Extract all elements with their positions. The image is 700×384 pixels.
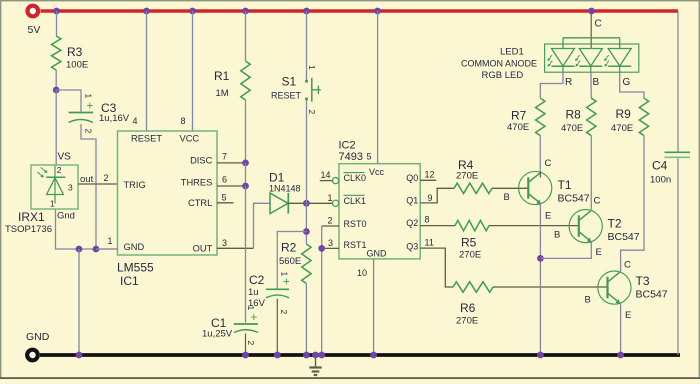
svg-text:2: 2 bbox=[279, 310, 289, 315]
svg-text:2: 2 bbox=[57, 165, 62, 175]
node C2 tap bbox=[303, 228, 310, 235]
diode D1 1N4148 bbox=[269, 171, 301, 214]
capacitor C1 bbox=[202, 306, 258, 346]
wire IRX1 gnd down bbox=[56, 209, 118, 249]
svg-text:1u,25V: 1u,25V bbox=[202, 329, 233, 340]
svg-text:RST0: RST0 bbox=[344, 219, 367, 229]
wire S1 to CLK1 node bbox=[306, 101, 308, 204]
node R3/C3/IRX1 bbox=[53, 87, 60, 94]
svg-text:S1: S1 bbox=[282, 75, 297, 89]
wire IC1 GND lead bbox=[96, 248, 118, 250]
svg-text:1: 1 bbox=[307, 65, 317, 70]
pin 5 lead CTRL stub bbox=[217, 193, 234, 203]
svg-text:BC547: BC547 bbox=[636, 289, 668, 301]
wire R5 to T2 base bbox=[489, 225, 579, 227]
svg-text:THRES: THRES bbox=[181, 177, 213, 187]
svg-text:270E: 270E bbox=[456, 171, 478, 182]
resistor R8 bbox=[561, 98, 596, 135]
svg-text:G: G bbox=[623, 77, 631, 88]
svg-text:R5: R5 bbox=[461, 236, 477, 250]
svg-text:BC547: BC547 bbox=[558, 193, 590, 205]
svg-text:C2: C2 bbox=[249, 273, 265, 287]
capacitor C4 bbox=[650, 152, 690, 185]
junction RST rail bbox=[318, 352, 325, 359]
node DISC bbox=[242, 160, 249, 167]
wire R7 to T1 collector bbox=[539, 136, 541, 172]
label G pin bbox=[623, 77, 631, 88]
junction: rail to LED1 anode bbox=[588, 8, 595, 15]
wire rail to IC1 VCC pin 8 bbox=[192, 11, 194, 131]
wire RST0 to gnd rail bbox=[321, 226, 323, 355]
wire node VS to IRX1 bbox=[56, 90, 71, 165]
junction T3 emitter rail bbox=[617, 352, 624, 359]
wire LED B to R8 bbox=[590, 72, 592, 98]
svg-text:IRX1: IRX1 bbox=[18, 210, 45, 224]
svg-text:RESET: RESET bbox=[271, 91, 302, 101]
resistor R1 bbox=[214, 61, 250, 100]
svg-text:3: 3 bbox=[328, 238, 333, 248]
svg-text:B: B bbox=[554, 230, 560, 241]
resistor R5 bbox=[455, 220, 489, 260]
wire IC2 GND pin 10 to rail bbox=[373, 259, 375, 355]
capacitor C2 bbox=[248, 272, 290, 315]
svg-text:+: + bbox=[283, 277, 290, 289]
svg-text:270E: 270E bbox=[459, 250, 481, 261]
svg-text:COMMON ANODE: COMMON ANODE bbox=[461, 58, 537, 68]
LED1 common anode RGB LED bbox=[461, 38, 639, 81]
wire IRX1 out to IC1 TRIG bbox=[78, 183, 118, 185]
svg-text:2: 2 bbox=[104, 173, 109, 183]
svg-text:C: C bbox=[595, 19, 602, 30]
svg-text:1M: 1M bbox=[216, 88, 229, 99]
svg-text:1: 1 bbox=[328, 193, 333, 203]
svg-text:C: C bbox=[624, 260, 631, 271]
svg-text:R3: R3 bbox=[67, 45, 83, 59]
pin 2 lead RST0 bbox=[322, 216, 339, 227]
svg-text:Q2: Q2 bbox=[406, 218, 418, 228]
pin 6 lead THRES bbox=[217, 175, 246, 187]
svg-text:RGB LED: RGB LED bbox=[482, 70, 524, 81]
label B pin bbox=[593, 77, 600, 88]
pin 14 stub CLK0 bbox=[320, 170, 339, 184]
svg-text:GND: GND bbox=[124, 242, 145, 252]
svg-text:E: E bbox=[625, 310, 631, 321]
wire LED G to R9 bbox=[620, 72, 644, 98]
svg-text:5V: 5V bbox=[28, 24, 41, 36]
svg-text:2: 2 bbox=[328, 216, 333, 226]
svg-text:8: 8 bbox=[425, 215, 430, 225]
svg-text:8: 8 bbox=[181, 116, 186, 126]
T1 emitter wire to rail bbox=[539, 204, 541, 355]
svg-text:C: C bbox=[594, 196, 601, 207]
svg-text:560E: 560E bbox=[279, 256, 301, 267]
wire rail to IC2 Vcc pin 5 bbox=[377, 11, 379, 164]
wire THRES node down to C1 bbox=[245, 186, 247, 323]
svg-text:CLK1: CLK1 bbox=[344, 196, 367, 206]
wire gnd node to rail bbox=[78, 249, 80, 355]
svg-text:RESET: RESET bbox=[131, 134, 162, 144]
junction: rail to IC2 pin 5 bbox=[374, 8, 381, 15]
node THRES bbox=[242, 183, 249, 190]
wire LED R to R7 bbox=[540, 72, 563, 98]
svg-text:100E: 100E bbox=[66, 60, 88, 71]
wire C1 to rail bbox=[245, 334, 247, 356]
svg-text:R7: R7 bbox=[511, 109, 527, 123]
pin 8 label bbox=[181, 116, 186, 126]
wire R2 to rail bbox=[305, 284, 307, 356]
junction: rail to R3 bbox=[53, 8, 60, 15]
svg-text:Q3: Q3 bbox=[406, 241, 418, 251]
svg-text:DISC: DISC bbox=[190, 155, 212, 165]
svg-text:3: 3 bbox=[68, 183, 73, 193]
IR receiver IRX1 TSOP1736 bbox=[5, 165, 78, 235]
junction T1 emitter rail bbox=[537, 352, 544, 359]
svg-text:CTRL: CTRL bbox=[188, 198, 212, 208]
svg-text:C: C bbox=[545, 158, 552, 169]
wire rail to LED1 common anode bbox=[591, 11, 602, 49]
svg-text:VS: VS bbox=[58, 152, 72, 163]
svg-text:100n: 100n bbox=[650, 175, 671, 186]
wire C2 to rail bbox=[276, 299, 278, 355]
T2 emitter wire bbox=[540, 242, 591, 259]
svg-text:TRIG: TRIG bbox=[124, 180, 146, 190]
node S1/D1/R2 bbox=[303, 200, 310, 207]
resistor R9 bbox=[611, 98, 649, 135]
junction: rail to IC1 pin 4 bbox=[143, 8, 150, 15]
svg-text:2: 2 bbox=[307, 110, 317, 115]
LED blue element bbox=[575, 49, 602, 73]
wire R6 to T3 base bbox=[493, 286, 608, 288]
svg-text:3: 3 bbox=[222, 238, 227, 248]
svg-text:R9: R9 bbox=[616, 107, 632, 121]
resistor R3 bbox=[52, 36, 89, 71]
svg-text:1N4148: 1N4148 bbox=[269, 183, 301, 193]
pin 2 label bbox=[104, 173, 109, 183]
wire rail to IC1 RESET pin 4 bbox=[146, 11, 148, 131]
resistor R2 bbox=[279, 241, 311, 284]
svg-text:470E: 470E bbox=[561, 123, 583, 134]
label Gnd bbox=[57, 211, 75, 222]
junction: rail to R1 bbox=[242, 8, 249, 15]
resistor R4 bbox=[454, 158, 492, 194]
label R pin bbox=[565, 77, 572, 88]
resistor R6 bbox=[453, 282, 493, 327]
wire rail to C4 bbox=[677, 11, 679, 152]
svg-text:GND: GND bbox=[26, 331, 50, 343]
pin 9 lead Q1 bbox=[420, 188, 454, 203]
svg-text:R6: R6 bbox=[460, 301, 476, 315]
junction gnd rail left bbox=[76, 352, 83, 359]
wire OUT up to D1 anode bbox=[254, 203, 271, 248]
wire rail to R3 bbox=[56, 11, 58, 36]
junction IC2 gnd rail bbox=[370, 352, 377, 359]
svg-text:470E: 470E bbox=[611, 123, 633, 134]
wire C3 to gnd node bbox=[81, 124, 96, 249]
svg-text:RST1: RST1 bbox=[344, 240, 367, 250]
svg-text:VCC: VCC bbox=[180, 134, 200, 144]
svg-text:5: 5 bbox=[222, 193, 227, 203]
pin 1 label bbox=[108, 236, 113, 246]
svg-text:14: 14 bbox=[321, 170, 331, 180]
svg-text:B: B bbox=[585, 295, 591, 306]
svg-text:BC547: BC547 bbox=[608, 231, 640, 243]
svg-text:5: 5 bbox=[367, 152, 372, 162]
wire rail to S1 bbox=[306, 11, 308, 80]
svg-text:LED1: LED1 bbox=[500, 47, 524, 58]
svg-text:1u: 1u bbox=[248, 287, 259, 298]
svg-text:B: B bbox=[593, 77, 600, 88]
wire DISC to THRES bbox=[245, 163, 247, 186]
svg-text:T2: T2 bbox=[608, 217, 622, 231]
wire node to C3 bbox=[56, 90, 81, 112]
LED red element bbox=[547, 49, 574, 73]
label out bbox=[80, 174, 94, 185]
svg-text:7493: 7493 bbox=[339, 151, 363, 163]
junction C2 rail bbox=[274, 352, 281, 359]
junction C1 rail bbox=[242, 352, 249, 359]
svg-text:11: 11 bbox=[425, 237, 434, 247]
switch S1 push-button bbox=[271, 65, 321, 115]
svg-text:2: 2 bbox=[246, 341, 256, 346]
pin 7 lead DISC bbox=[217, 152, 246, 163]
junction: rail to IC1 pin 8 bbox=[189, 8, 196, 15]
transistor T3 BC547 bbox=[585, 260, 668, 322]
svg-text:R8: R8 bbox=[566, 108, 582, 122]
5V terminal bbox=[28, 6, 41, 36]
pin 8 lead Q2 bbox=[420, 215, 455, 226]
svg-text:GND: GND bbox=[367, 249, 388, 259]
pin 4 label bbox=[133, 116, 138, 126]
wire rail to R1 bbox=[245, 11, 247, 61]
wire C4 to rail bbox=[677, 158, 679, 355]
svg-text:T3: T3 bbox=[636, 274, 650, 288]
svg-text:1: 1 bbox=[50, 199, 55, 209]
svg-text:1: 1 bbox=[280, 272, 290, 277]
node T1/T2 emitters bbox=[537, 255, 544, 262]
pin 3 lead RST1 bbox=[322, 238, 339, 248]
GND terminal bbox=[26, 331, 50, 360]
svg-text:470E: 470E bbox=[507, 122, 529, 133]
node IRX1 gnd / rail drop bbox=[76, 246, 83, 253]
LED green element bbox=[604, 49, 631, 73]
svg-text:Gnd: Gnd bbox=[57, 211, 75, 222]
svg-text:Q1: Q1 bbox=[406, 195, 418, 205]
svg-text:9: 9 bbox=[428, 193, 433, 203]
svg-text:B: B bbox=[504, 192, 510, 203]
junction R2 rail bbox=[303, 352, 310, 359]
svg-text:LM555: LM555 bbox=[117, 261, 154, 275]
wire D1 cathode to IC2 CLK1 bbox=[288, 202, 332, 204]
pin 12 stub Q0 bbox=[420, 170, 436, 181]
svg-text:E: E bbox=[596, 247, 602, 258]
svg-text:IC1: IC1 bbox=[120, 274, 139, 288]
pin 3 lead OUT bbox=[217, 238, 254, 248]
svg-text:270E: 270E bbox=[456, 316, 478, 327]
svg-text:1: 1 bbox=[84, 94, 94, 99]
svg-text:Q0: Q0 bbox=[406, 173, 418, 183]
svg-text:10: 10 bbox=[357, 268, 367, 278]
ground symbol bbox=[309, 352, 321, 375]
svg-text:4: 4 bbox=[133, 116, 138, 126]
svg-text:C4: C4 bbox=[652, 159, 668, 173]
5V power rail (+5V bus) bbox=[41, 9, 679, 13]
svg-text:7: 7 bbox=[222, 152, 227, 162]
ground rail (GND bus) bbox=[40, 353, 680, 357]
svg-text:R2: R2 bbox=[281, 241, 297, 255]
counter IC2 7493 box bbox=[339, 140, 421, 259]
wire R8 to T2 collector bbox=[590, 136, 592, 210]
wire R4 to T1 base bbox=[492, 187, 528, 189]
svg-text:OUT: OUT bbox=[193, 244, 213, 254]
pin 1 bubble CLK1 bbox=[328, 193, 339, 206]
svg-text:R: R bbox=[565, 77, 572, 88]
svg-text:2: 2 bbox=[84, 129, 94, 134]
svg-text:R1: R1 bbox=[214, 69, 230, 83]
transistor T1 BC547 bbox=[504, 158, 590, 222]
wire tap to C2 bbox=[277, 232, 306, 289]
wire R9 to T3 collector bbox=[621, 136, 644, 272]
pin 11 lead Q3 bbox=[420, 237, 453, 287]
T3 emitter wire to rail bbox=[620, 303, 622, 355]
T1 collector lead bbox=[539, 172, 541, 178]
svg-text:E: E bbox=[545, 211, 551, 222]
svg-text:1u,16V: 1u,16V bbox=[99, 113, 130, 124]
wire R3 to node VS bbox=[55, 70, 57, 90]
svg-text:+: + bbox=[87, 101, 94, 113]
svg-text:T1: T1 bbox=[558, 178, 572, 192]
node RST1 bbox=[318, 245, 325, 252]
svg-text:1: 1 bbox=[108, 236, 113, 246]
capacitor C3 bbox=[69, 94, 130, 134]
svg-text:6: 6 bbox=[222, 175, 227, 185]
svg-text:+: + bbox=[251, 312, 258, 324]
svg-text:1: 1 bbox=[246, 306, 256, 311]
wire node to R2 bbox=[305, 203, 307, 244]
svg-text:TSOP1736: TSOP1736 bbox=[5, 224, 52, 235]
op IC1 LM555 timer box bbox=[117, 131, 217, 288]
resistor R7 bbox=[507, 98, 545, 135]
svg-text:Vcc: Vcc bbox=[369, 167, 385, 177]
svg-text:12: 12 bbox=[425, 170, 435, 180]
transistor T2 BC547 bbox=[554, 196, 640, 259]
svg-text:IC2: IC2 bbox=[339, 140, 356, 152]
pin 10 label bbox=[357, 268, 367, 278]
svg-text:CLK0: CLK0 bbox=[344, 173, 367, 183]
wire R1 to DISC node bbox=[245, 100, 247, 163]
junction: rail to S1 bbox=[303, 8, 310, 15]
node C3 neg / gnd line bbox=[93, 246, 100, 253]
pin 5 label bbox=[367, 152, 372, 162]
